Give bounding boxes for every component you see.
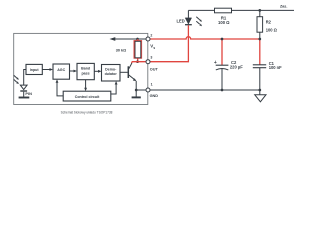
resistor R2 (259, 10, 261, 39)
wire LED cathode down to OUT (red) (150, 25, 189, 62)
block Control circuit (63, 91, 111, 101)
capacitor C2 (electrolytic) (216, 64, 229, 66)
svg-text:3: 3 (150, 55, 152, 59)
junction Vs/C2 (221, 38, 224, 41)
transistor Q1 (127, 66, 129, 78)
svg-text:Demo-: Demo- (105, 67, 117, 71)
wire Control->Demodulator (111, 84, 116, 94)
svg-text:30 kΩ: 30 kΩ (116, 48, 126, 52)
wire emitter junction to pin1 (136, 89, 146, 91)
IC box TSOP1738 outline (14, 33, 148, 104)
svg-text:100 Ω: 100 Ω (218, 20, 230, 25)
svg-text:GND: GND (150, 94, 159, 98)
svg-text:AGC: AGC (57, 68, 65, 72)
junction 30k/OUT line (136, 60, 139, 63)
wire emitter to GND (135, 81, 137, 90)
ground (emitter) (135, 90, 137, 97)
wire top supply rail (188, 9, 294, 11)
PIN light arrows (14, 75, 17, 78)
resistor R1 (215, 8, 232, 13)
resistor 30k (red) (137, 39, 139, 62)
svg-text:2: 2 (150, 34, 152, 38)
junction top rail / R2 (258, 9, 261, 12)
wire Band pass->Control (85, 80, 87, 89)
junction pin2/30k (136, 38, 139, 41)
svg-text:Zas.: Zas. (280, 5, 287, 9)
wire Band pass->Demodulator (94, 70, 98, 72)
wire pin2 to internal (arrow left) (113, 38, 146, 40)
svg-text:Schemat blokowy układu TSOP173: Schemat blokowy układu TSOP1738 (61, 111, 113, 115)
wire GND rail (150, 89, 260, 91)
svg-text:100 Ω: 100 Ω (266, 27, 278, 32)
pin 1 node (146, 88, 150, 92)
svg-text:R2: R2 (266, 20, 272, 25)
capacitor C1 (253, 64, 266, 66)
pin 3 node (146, 60, 150, 64)
junction GND/C1 (258, 89, 261, 92)
svg-text:dulator: dulator (105, 72, 118, 76)
block Demodulator (102, 65, 121, 82)
wire Input->AGC (42, 69, 49, 71)
svg-text:Input: Input (30, 68, 40, 72)
photodiode PIN (24, 70, 26, 86)
ground symbol (triangle) (259, 90, 261, 95)
svg-text:1: 1 (151, 82, 153, 86)
pin 2 node (146, 37, 150, 41)
ground (PIN) (19, 97, 30, 99)
junction GND/C2 (221, 89, 224, 92)
svg-text:OUT: OUT (150, 67, 159, 71)
junction Vs/R2/C1 (258, 38, 261, 41)
wire Vs rail (red) with hop over LED wire (150, 37, 260, 39)
LED indicator (187, 10, 189, 18)
wire AGC->Band pass (70, 70, 74, 72)
block Input (26, 64, 42, 74)
svg-text:s: s (153, 46, 155, 50)
svg-text:Band: Band (81, 67, 90, 71)
wire C2 drop (red) (221, 39, 223, 65)
block Band pass (77, 63, 94, 79)
svg-text:LED: LED (177, 19, 185, 24)
svg-text:100 nF: 100 nF (269, 65, 282, 70)
wire Control->AGC (57, 82, 63, 96)
LED emission arrows (196, 17, 200, 20)
wire C1 drop (red) (259, 39, 261, 65)
svg-text:pass: pass (81, 71, 89, 75)
svg-text:+: + (214, 60, 217, 66)
svg-text:Control circuit: Control circuit (75, 95, 100, 99)
wire OUT internal (red) (132, 62, 146, 63)
svg-text:220 µF: 220 µF (230, 65, 243, 70)
junction emitter/GND (135, 89, 138, 92)
block AGC (53, 64, 70, 79)
svg-text:PIN: PIN (25, 91, 32, 96)
